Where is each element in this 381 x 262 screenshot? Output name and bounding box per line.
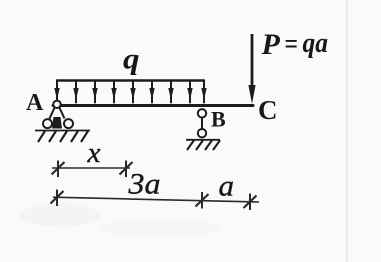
- svg-text:qa: qa: [303, 28, 329, 59]
- svg-text:3a: 3a: [127, 168, 160, 201]
- svg-text:B: B: [211, 107, 226, 132]
- svg-text:q: q: [123, 43, 140, 76]
- svg-text:=: =: [285, 28, 299, 59]
- svg-text:x: x: [86, 138, 101, 169]
- svg-text:a: a: [219, 170, 235, 203]
- svg-text:A: A: [26, 90, 44, 116]
- svg-text:C: C: [258, 95, 278, 125]
- svg-text:P: P: [261, 28, 281, 61]
